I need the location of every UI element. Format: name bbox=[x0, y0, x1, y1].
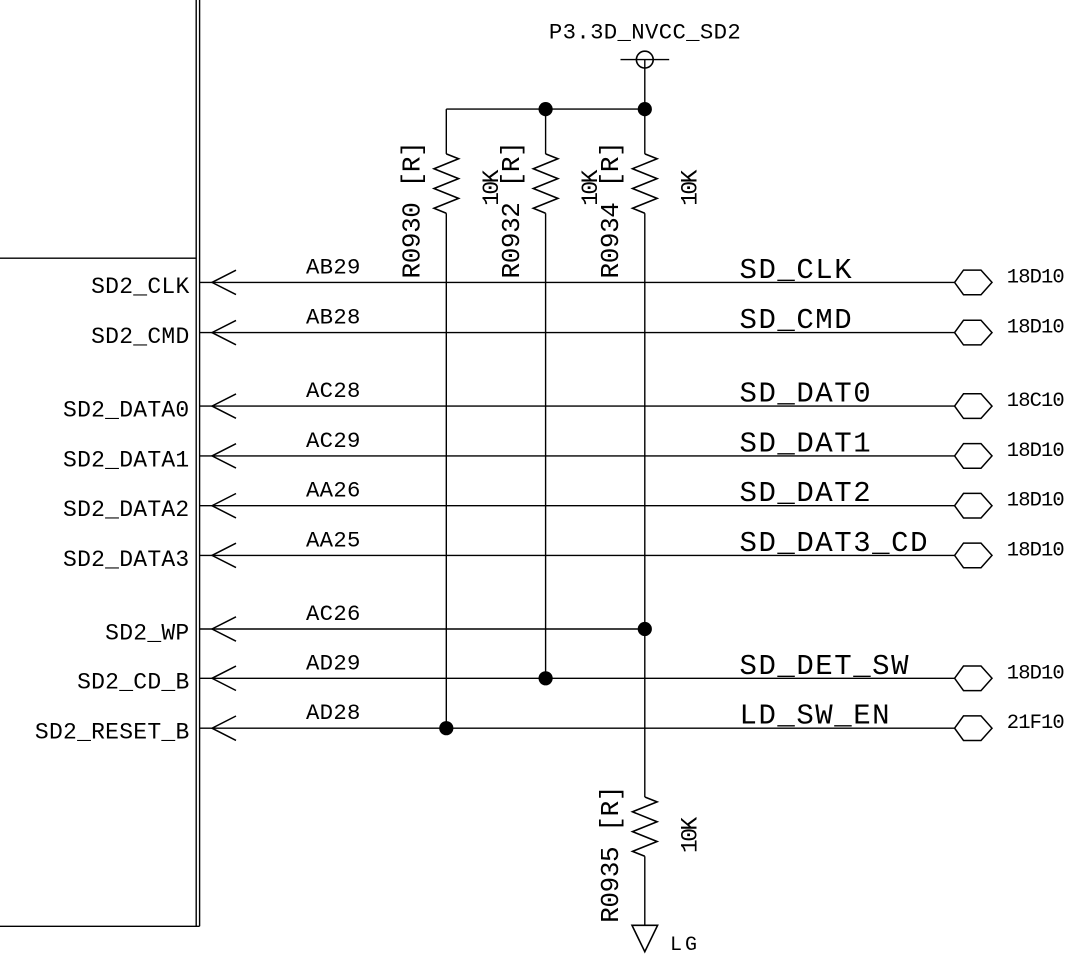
svg-text:18D10: 18D10 bbox=[1007, 490, 1065, 513]
IC block bottom edge bbox=[0, 925, 200, 927]
wire pin SD2_WP bbox=[200, 628, 645, 630]
svg-text:21F10: 21F10 bbox=[1007, 712, 1065, 735]
svg-text:SD2_DATA1: SD2_DATA1 bbox=[63, 447, 189, 473]
resistor R0930 bbox=[434, 154, 459, 213]
pin arrow SD2_DATA2 bbox=[212, 494, 236, 518]
svg-text:AD29: AD29 bbox=[306, 650, 361, 676]
svg-text:SD2_DATA3: SD2_DATA3 bbox=[63, 547, 189, 573]
svg-text:10K: 10K bbox=[677, 169, 703, 205]
wire R0934 top leg bbox=[644, 109, 646, 154]
svg-text:SD_DAT1: SD_DAT1 bbox=[740, 427, 873, 460]
wire pin SD2_DATA0 bbox=[200, 405, 955, 407]
wire pin SD2_CD_B bbox=[200, 677, 955, 679]
svg-text:R0930 [R]: R0930 [R] bbox=[398, 142, 428, 279]
wire pin SD2_RESET_B bbox=[200, 727, 955, 729]
svg-text:18D10: 18D10 bbox=[1007, 440, 1065, 463]
junction rail/R0932 bbox=[539, 102, 553, 116]
junction SD2_WP/R0934 bbox=[638, 622, 652, 636]
svg-text:SD2_CMD: SD2_CMD bbox=[91, 324, 189, 350]
resistor R0934 bbox=[633, 154, 658, 213]
IC block right edge inner line bbox=[195, 0, 197, 926]
ground LG bbox=[632, 925, 658, 951]
svg-text:SD_CMD: SD_CMD bbox=[740, 304, 854, 337]
off-page connector SD_DAT0 bbox=[955, 394, 992, 419]
svg-text:SD_DAT3_CD: SD_DAT3_CD bbox=[740, 527, 930, 560]
pin arrow SD2_CLK bbox=[212, 270, 236, 294]
pin arrow SD2_RESET_B bbox=[212, 716, 236, 740]
wire pin SD2_DATA2 bbox=[200, 505, 955, 507]
junction SD2_RESET_B/R0930 bbox=[439, 721, 453, 735]
wire pin SD2_CLK bbox=[200, 281, 955, 283]
wire R0932 top leg bbox=[545, 109, 547, 154]
off-page connector SD_DAT1 bbox=[955, 444, 992, 469]
pin arrow SD2_CD_B bbox=[212, 666, 236, 690]
svg-text:R0935 [R]: R0935 [R] bbox=[596, 786, 626, 923]
pin arrow SD2_WP bbox=[212, 617, 236, 641]
svg-text:SD_CLK: SD_CLK bbox=[740, 254, 854, 287]
svg-text:10K: 10K bbox=[677, 817, 703, 853]
power symbol P3.3D_NVCC_SD2 bbox=[621, 51, 670, 68]
svg-text:18D10: 18D10 bbox=[1007, 266, 1065, 289]
svg-text:18D10: 18D10 bbox=[1007, 317, 1065, 340]
wire R0935 bottom lead bbox=[644, 856, 646, 925]
wire pin SD2_DATA1 bbox=[200, 455, 955, 457]
svg-text:SD2_WP: SD2_WP bbox=[105, 620, 189, 646]
IC block right edge outer line bbox=[199, 0, 201, 926]
svg-text:AC29: AC29 bbox=[306, 428, 361, 454]
pin arrow SD2_DATA1 bbox=[212, 444, 236, 468]
svg-text:SD_DAT0: SD_DAT0 bbox=[740, 378, 873, 411]
svg-text:R0932 [R]: R0932 [R] bbox=[497, 142, 527, 279]
svg-text:18C10: 18C10 bbox=[1007, 390, 1065, 413]
svg-text:AC26: AC26 bbox=[306, 601, 361, 627]
svg-text:SD2_DATA2: SD2_DATA2 bbox=[63, 497, 189, 523]
pin arrow SD2_DATA3 bbox=[212, 543, 236, 567]
svg-text:AA26: AA26 bbox=[306, 478, 361, 504]
svg-text:SD2_RESET_B: SD2_RESET_B bbox=[35, 720, 190, 746]
svg-text:R0934 [R]: R0934 [R] bbox=[596, 142, 626, 279]
wire pin SD2_CMD bbox=[200, 332, 955, 334]
wire R0932 bottom leg bbox=[545, 213, 547, 678]
off-page connector LD_SW_EN bbox=[955, 716, 992, 741]
svg-text:AA25: AA25 bbox=[306, 527, 361, 553]
resistor R0932 bbox=[533, 154, 558, 213]
pin arrow SD2_DATA0 bbox=[212, 394, 236, 418]
svg-text:SD_DET_SW: SD_DET_SW bbox=[740, 650, 911, 683]
pin arrow SD2_CMD bbox=[212, 320, 236, 344]
junction SD2_CD_B/R0932 bbox=[539, 671, 553, 685]
svg-text:SD_DAT2: SD_DAT2 bbox=[740, 477, 873, 510]
svg-text:LG: LG bbox=[670, 934, 700, 957]
resistor R0935 bbox=[633, 797, 658, 856]
off-page connector SD_DAT3_CD bbox=[955, 543, 992, 568]
wire power stub bbox=[644, 60, 646, 110]
svg-text:AB28: AB28 bbox=[306, 305, 361, 331]
wire pin SD2_DATA3 bbox=[200, 554, 955, 556]
svg-text:AB29: AB29 bbox=[306, 254, 361, 280]
wire R0934 bottom leg down to R0935 bbox=[644, 213, 646, 797]
off-page connector SD_CMD bbox=[955, 320, 992, 345]
svg-text:SD2_CLK: SD2_CLK bbox=[91, 274, 189, 300]
svg-text:SD2_CD_B: SD2_CD_B bbox=[77, 670, 189, 696]
svg-text:P3.3D_NVCC_SD2: P3.3D_NVCC_SD2 bbox=[549, 20, 741, 46]
off-page connector SD_DAT2 bbox=[955, 493, 992, 518]
svg-text:SD2_DATA0: SD2_DATA0 bbox=[63, 398, 189, 424]
svg-text:18D10: 18D10 bbox=[1007, 662, 1065, 685]
wire R0930 bottom leg bbox=[445, 213, 447, 728]
wire R0930 top leg bbox=[445, 109, 447, 154]
svg-text:LD_SW_EN: LD_SW_EN bbox=[740, 700, 892, 733]
svg-text:AC28: AC28 bbox=[306, 378, 361, 404]
off-page connector SD_CLK bbox=[955, 270, 992, 295]
junction rail/R0934 bbox=[638, 102, 652, 116]
off-page connector SD_DET_SW bbox=[955, 666, 992, 691]
svg-text:AD28: AD28 bbox=[306, 700, 361, 726]
svg-text:18D10: 18D10 bbox=[1007, 539, 1065, 562]
IC block top edge bbox=[0, 257, 196, 259]
wire power rail bbox=[446, 108, 645, 110]
